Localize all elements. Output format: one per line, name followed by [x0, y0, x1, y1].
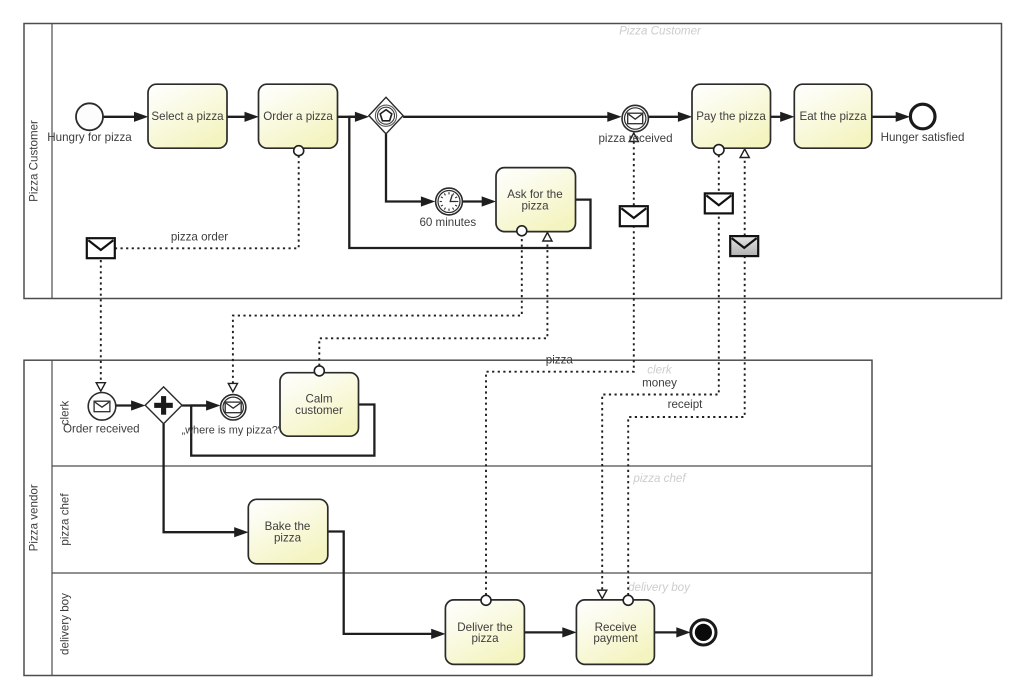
envelope pizza order [87, 238, 115, 258]
message start event Order received [63, 393, 140, 436]
svg-text:payment: payment [593, 632, 638, 645]
wire loop Calm customer back to where is my pizza event [191, 405, 374, 456]
start event Hungry for pizza [76, 103, 103, 130]
pool Pizza vendor label divider [51, 360, 53, 675]
pool Pizza Customer label divider [51, 24, 53, 299]
wire parallel gateway down to Bake the pizza [164, 424, 237, 533]
wire Deliver the pizza to Receive payment [524, 631, 565, 633]
svg-text:delivery boy: delivery boy [59, 593, 72, 655]
terminate end event [691, 620, 716, 645]
message catch event pizza received [598, 105, 672, 145]
message catch event where is my pizza [182, 395, 282, 437]
wire Bake the pizza to Deliver the pizza [328, 532, 434, 634]
wire start to Select a pizza [104, 116, 137, 118]
task Order a pizza [259, 84, 338, 148]
svg-text:pizza: pizza [546, 354, 574, 367]
envelope pizza [620, 206, 648, 226]
wire Order received to parallel gateway [116, 404, 134, 406]
wire Eat the pizza to end event [872, 116, 898, 118]
pool Pizza vendor [24, 360, 872, 675]
wire gateway to pizza received [403, 116, 610, 118]
task Eat the pizza [794, 84, 872, 148]
svg-text:Pizza vendor: Pizza vendor [28, 484, 41, 551]
svg-text:Pay the pizza: Pay the pizza [696, 110, 766, 123]
wire Order a pizza to gateway [338, 116, 358, 118]
svg-text:Order a pizza: Order a pizza [263, 110, 333, 123]
lane divider clerk / pizza chef [52, 465, 872, 467]
wire pizza received to Pay the pizza [649, 116, 681, 118]
wire timer to Ask for the pizza [462, 200, 484, 202]
envelope money [705, 193, 733, 213]
task Select a pizza [148, 84, 227, 148]
lane divider pizza chef / delivery boy [52, 572, 872, 574]
message flow Calm customer to Ask for the pizza [319, 242, 547, 366]
message flow Deliver the pizza to pizza received (pizza) [486, 142, 634, 595]
svg-text:delivery boy: delivery boy [628, 581, 691, 594]
svg-text:pizza chef: pizza chef [59, 493, 72, 546]
svg-text:Eat the pizza: Eat the pizza [799, 110, 867, 123]
svg-text:Hungry for pizza: Hungry for pizza [47, 131, 132, 144]
task Deliver the pizza [445, 600, 524, 665]
event-based gateway [369, 97, 403, 134]
wire parallel gateway to where is my pizza event [182, 404, 209, 406]
wire gateway down to timer [386, 134, 423, 202]
svg-text:money: money [642, 376, 677, 389]
end event Hunger satisfied [910, 104, 935, 129]
svg-text:Hunger satisfied: Hunger satisfied [881, 131, 965, 144]
svg-text:pizza chef: pizza chef [632, 472, 687, 485]
svg-text:Pizza Customer: Pizza Customer [619, 25, 702, 38]
message flow Ask for the pizza to where is my pizza [233, 239, 522, 383]
svg-text:pizza: pizza [274, 532, 302, 545]
timer event 60 minutes [419, 188, 476, 229]
wire Receive payment to terminate end [654, 631, 678, 633]
svg-text:pizza: pizza [471, 632, 499, 645]
task Pay the pizza [692, 84, 771, 148]
svg-text:customer: customer [295, 404, 343, 417]
message flow Order a pizza to Order received (pizza order) [101, 156, 299, 383]
task Calm customer [280, 373, 359, 437]
message flow Pay the pizza to Receive payment (money) [602, 155, 719, 590]
wire Pay the pizza to Eat the pizza [771, 116, 784, 118]
svg-text:pizza: pizza [521, 199, 549, 212]
svg-text:60 minutes: 60 minutes [419, 216, 476, 229]
svg-text:clerk: clerk [647, 364, 673, 377]
svg-text:Order received: Order received [63, 422, 140, 435]
svg-text:Pizza Customer: Pizza Customer [28, 120, 41, 202]
message flow Receive payment to Pay the pizza (receipt) [628, 158, 745, 595]
task Receive payment [576, 600, 654, 665]
svg-text:pizza received: pizza received [598, 132, 672, 145]
message flow start circle markers (drawn on top) [294, 146, 304, 156]
pool Pizza Customer [24, 24, 1002, 299]
task Ask for the pizza [496, 168, 576, 232]
envelope receipt (gray) [730, 236, 758, 256]
svg-text:pizza order: pizza order [171, 231, 228, 244]
task Bake the pizza [248, 499, 327, 564]
svg-text:„where is my pizza?“: „where is my pizza?“ [182, 424, 282, 436]
svg-text:Select a pizza: Select a pizza [151, 110, 224, 123]
wire loop Ask for the pizza back to gateway [349, 117, 590, 248]
wire Select a pizza to Order a pizza [227, 116, 247, 118]
parallel gateway [145, 387, 182, 424]
svg-text:receipt: receipt [668, 398, 704, 411]
